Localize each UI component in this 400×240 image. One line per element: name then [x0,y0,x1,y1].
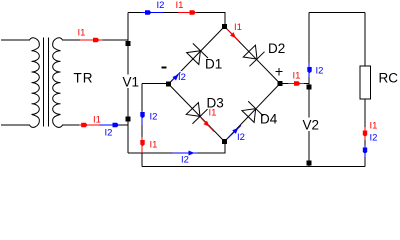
svg-text:I2: I2 [178,72,186,83]
ammeter probe I2 segment on top rail [142,12,164,14]
ammeter probe I1 segment on top rail [178,12,197,14]
svg-text:I2: I2 [237,132,245,143]
svg-text:I1: I1 [370,121,378,132]
ammeter probe I1 segment on D2 edge [227,29,239,41]
ammeter probe I2 arrow on D4 edge [232,126,240,134]
wire primary top lead [1,39,30,41]
svg-text:I2: I2 [150,112,158,123]
ammeter probe I2 segment on D4 edge [228,126,242,139]
ammeter probe I1 segment on RC lead [364,127,366,140]
wire right loop top [309,12,365,14]
svg-text:D1: D1 [205,57,222,72]
ammeter probe I2 arrow on D1 edge [172,73,180,81]
ammeter probe I2 marker minus vertical [140,112,144,118]
ammeter probe I1 segment on D3 edge [201,118,214,132]
svg-text:I2: I2 [181,155,189,166]
label V1 [121,75,135,89]
wire secondary top lead [62,39,128,41]
transformer TR core line left [43,38,45,127]
ammeter probe I2 arrow bottom rail [189,151,195,156]
svg-text:I1: I1 [293,71,301,82]
ammeter probe I2 marker V2 line [307,67,311,73]
label I2 on D1 edge background [178,71,191,81]
ammeter probe I1 arrow on D3 edge [203,121,211,129]
diode D1 [185,43,208,66]
wire secondary bottom lead [62,124,128,126]
ammeter probe I2 segment on V2 line [308,63,310,77]
resistor RC body [360,66,371,99]
voltmeter V1 bottom terminal [126,117,131,122]
ammeter probe I1 marker RC lead [363,131,367,137]
ammeter probe I1 arrow on D2 edge [230,32,238,40]
svg-text:I2: I2 [370,133,378,144]
ammeter probe I1 marker plus output [294,81,300,85]
wire RC top lead [364,13,366,67]
wire bottom rail [128,142,225,154]
diode D3 [185,101,208,124]
bridge diamond edge B-R with diode D4 [225,84,281,142]
ammeter probe I1 segment on secondary bottom [79,124,99,126]
label minus [162,67,167,69]
transformer TR secondary winding [53,38,63,128]
voltmeter V1 line [127,13,129,154]
svg-text:I1: I1 [150,140,158,151]
ammeter probe I1 segment on secondary top [80,39,103,41]
svg-text:RC: RC [379,71,399,86]
transformer TR core line right [48,38,50,127]
node dot bridge bottom corner [222,139,227,144]
diode D4 [241,101,264,124]
label V2 [302,118,317,132]
ammeter probe I2 segment on secondary bottom [99,124,119,126]
svg-text:V1: V1 [123,75,140,90]
svg-text:I1: I1 [78,28,86,39]
voltmeter V2 bottom terminal [307,161,312,166]
ammeter probe I2 segment on D1 edge [171,72,181,82]
ammeter probe I2 marker RC lead [363,148,367,154]
svg-text:I2: I2 [157,0,165,11]
ammeter probe I2 marker secondary bottom [113,123,119,127]
wire bottom long [142,166,365,168]
ammeter probe I2 segment on RC lead [364,145,366,157]
wire primary bottom lead [1,124,30,126]
ammeter probe I1 marker secondary bottom [81,123,87,127]
voltmeter V1 top terminal [126,41,131,46]
bridge diamond edge L-T with diode D1 [169,27,225,85]
voltmeter V2 top terminal [307,85,312,90]
svg-text:V2: V2 [303,118,320,133]
ammeter probe I1 segment on plus output [288,83,304,85]
label plus [276,68,283,76]
wire minus vertical [141,84,143,167]
bridge diamond edge T-R with diode D2 [225,27,281,84]
bridge diamond edge L-B with diode D3 [169,84,225,142]
ammeter probe I2 segment on minus vertical [141,111,143,125]
ammeter probe I1 marker top rail [190,10,196,14]
svg-text:D4: D4 [260,112,278,127]
svg-text:D2: D2 [268,41,285,56]
ammeter probe I2 segment on bottom rail [173,152,198,154]
transformer TR primary winding [30,38,40,128]
svg-text:TR: TR [74,71,94,86]
voltmeter V2 line [308,13,310,167]
wire plus output [280,83,309,85]
svg-text:D3: D3 [207,96,224,111]
diode D2 [242,44,265,67]
svg-text:I1: I1 [234,22,242,33]
svg-text:I1: I1 [176,0,184,11]
ammeter probe I1 marker minus vertical [140,140,144,146]
svg-text:I2: I2 [105,128,113,139]
svg-text:I2: I2 [316,66,324,77]
ammeter probe I1 segment on minus vertical [141,137,143,153]
ammeter probe I2 marker top rail [145,10,151,14]
ammeter probe I1 marker on secondary top [93,38,99,42]
node dot bridge left corner [166,82,171,87]
wire minus output [142,83,169,85]
wire RC bottom lead [364,99,366,167]
wire top rail [128,13,225,27]
svg-text:I1: I1 [93,115,101,126]
node dot bridge right corner [278,81,283,86]
node dot bridge top corner [222,24,227,29]
